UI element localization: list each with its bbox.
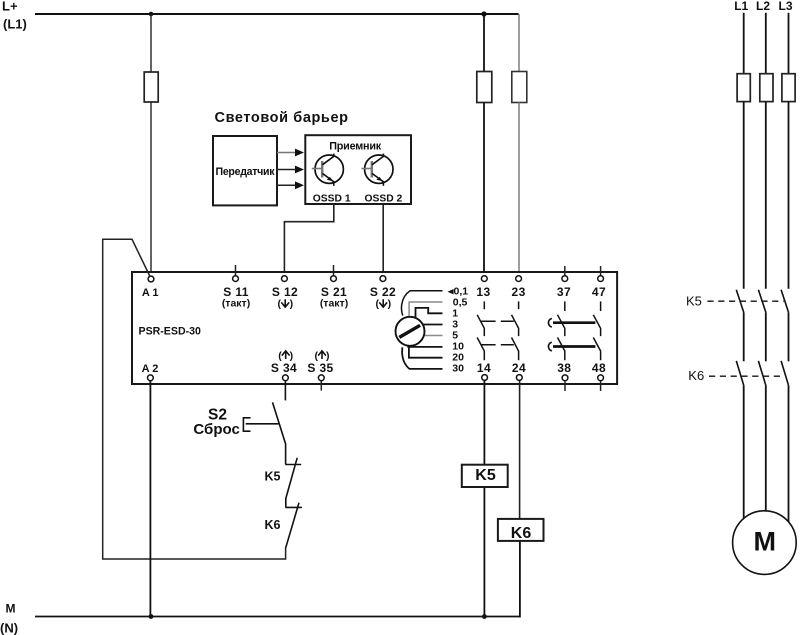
svg-text:OSSD 2: OSSD 2 (365, 194, 403, 205)
svg-text:20: 20 (452, 351, 464, 363)
svg-text:(: ( (278, 298, 282, 310)
svg-text:14: 14 (477, 361, 491, 375)
svg-text:48: 48 (592, 361, 606, 375)
svg-text:38: 38 (557, 361, 571, 375)
svg-text:Сброс: Сброс (193, 421, 239, 438)
svg-text:L2: L2 (756, 0, 770, 13)
svg-text:(: ( (278, 350, 282, 362)
svg-text:13: 13 (476, 285, 490, 299)
svg-text:(такт): (такт) (222, 298, 250, 310)
svg-text:(такт): (такт) (320, 298, 348, 310)
svg-text:S 34: S 34 (271, 361, 297, 375)
svg-text:S 35: S 35 (307, 361, 333, 375)
svg-text:K5: K5 (475, 467, 496, 484)
svg-text:(N): (N) (0, 621, 18, 635)
svg-text:): ) (326, 350, 330, 362)
svg-text:S 22: S 22 (370, 285, 396, 299)
svg-text:OSSD 1: OSSD 1 (313, 194, 351, 205)
svg-text:S 12: S 12 (272, 285, 298, 299)
svg-text:K5: K5 (265, 469, 281, 483)
svg-text:PSR-ESD-30: PSR-ESD-30 (139, 326, 202, 338)
svg-text:(L1): (L1) (3, 17, 27, 32)
svg-text:K6: K6 (511, 525, 532, 542)
svg-text:Передатчик: Передатчик (216, 166, 276, 178)
svg-text:): ) (290, 350, 294, 362)
svg-text:47: 47 (592, 285, 606, 299)
svg-text:5: 5 (452, 329, 458, 341)
svg-text:24: 24 (512, 361, 526, 375)
svg-text:A 1: A 1 (142, 287, 159, 299)
svg-text:Приемник: Приемник (329, 141, 382, 153)
svg-text:0,5: 0,5 (453, 296, 468, 308)
svg-text:K6: K6 (688, 368, 704, 383)
svg-text:23: 23 (512, 285, 526, 299)
svg-text:M: M (6, 602, 16, 616)
svg-text:Световой барьер: Световой барьер (215, 110, 349, 126)
svg-text:L+: L+ (2, 0, 18, 14)
svg-text:37: 37 (557, 285, 571, 299)
svg-text:M: M (754, 527, 777, 557)
svg-text:(: ( (315, 350, 319, 362)
svg-text:(: ( (376, 298, 380, 310)
svg-text:A 2: A 2 (142, 363, 159, 375)
svg-text:30: 30 (452, 363, 464, 375)
svg-text:K6: K6 (265, 518, 281, 532)
svg-text:L3: L3 (778, 0, 792, 13)
svg-text:): ) (388, 298, 392, 310)
svg-text:K5: K5 (686, 294, 702, 309)
svg-text:L1: L1 (734, 0, 748, 13)
svg-text:): ) (290, 298, 294, 310)
